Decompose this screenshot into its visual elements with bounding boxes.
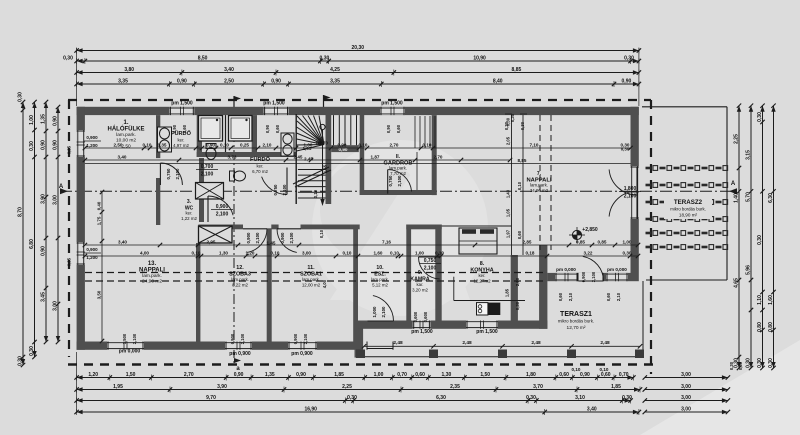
- svg-text:3,80: 3,80: [124, 67, 134, 73]
- svg-text:2,100: 2,100: [397, 175, 402, 187]
- dimension row top 2: [63, 55, 641, 64]
- terasz1 post 2: [429, 350, 438, 359]
- svg-text:1,00: 1,00: [304, 142, 313, 147]
- svg-text:lam.park.: lam.park.: [231, 277, 249, 282]
- wall gardrob south: [360, 190, 437, 195]
- svg-text:FÜRDŐ: FÜRDŐ: [250, 156, 271, 163]
- svg-text:A: A: [731, 181, 736, 187]
- svg-text:1,30: 1,30: [219, 250, 228, 255]
- svg-text:0,10: 0,10: [600, 367, 609, 372]
- svg-text:R2,70: R2,70: [316, 141, 328, 146]
- window left wall upper: [77, 130, 85, 157]
- wall stair/fu2 lintel: [331, 145, 359, 152]
- svg-text:24,90 m2: 24,90 m2: [142, 279, 162, 285]
- shower tray 1: [199, 116, 223, 142]
- wall between showers: [225, 115, 227, 152]
- svg-text:0,10: 0,10: [143, 142, 152, 147]
- section flag a bottom: [234, 358, 241, 363]
- vdim right col 3: [757, 104, 765, 371]
- wall exterior bottom kitchen section: [355, 321, 548, 329]
- kitchen sink unit: [477, 303, 488, 315]
- svg-text:8,85: 8,85: [512, 67, 522, 73]
- svg-text:0,30: 0,30: [63, 55, 73, 61]
- svg-text:2,48: 2,48: [600, 340, 610, 346]
- svg-text:pm 1,500: pm 1,500: [171, 101, 193, 107]
- svg-text:2,95: 2,95: [207, 239, 216, 244]
- room label 1 halofulke: [108, 120, 145, 149]
- extension line top right: [638, 48, 640, 106]
- svg-text:0,10: 0,10: [517, 181, 522, 190]
- svg-text:0,900: 0,900: [230, 333, 235, 344]
- svg-text:0,60: 0,60: [606, 292, 611, 301]
- washbasin double bath1: [158, 127, 172, 152]
- svg-text:0,30: 0,30: [729, 361, 734, 370]
- svg-text:6,80: 6,80: [29, 239, 35, 249]
- svg-text:1,22 m2: 1,22 m2: [181, 216, 197, 221]
- watermark bottom right: [640, 340, 800, 435]
- svg-text:1,10: 1,10: [757, 295, 763, 305]
- wall wc east: [199, 158, 204, 222]
- svg-text:7.: 7.: [537, 171, 542, 177]
- svg-text:2,05: 2,05: [506, 136, 511, 145]
- svg-text:12,00 m2: 12,00 m2: [302, 282, 321, 287]
- svg-text:3,00: 3,00: [53, 195, 59, 205]
- door opening bottom entry: [367, 342, 393, 350]
- svg-text:0,900: 0,900: [280, 232, 285, 244]
- wall pier between doors: [271, 225, 278, 230]
- svg-text:1,85: 1,85: [611, 384, 621, 390]
- svg-text:2,48: 2,48: [393, 340, 403, 346]
- dim row bottom 4 right seg: [645, 411, 728, 413]
- wall under showers: [197, 152, 296, 157]
- wardrobe with X room13: [199, 226, 233, 243]
- svg-text:1,35: 1,35: [158, 142, 167, 147]
- interior dim 8,85 line: [85, 163, 631, 165]
- svg-text:7,10: 7,10: [530, 142, 539, 147]
- svg-text:0,90: 0,90: [234, 372, 244, 378]
- terasz2 decking hatch: [646, 166, 728, 250]
- site boundary dashed right: [650, 100, 652, 374]
- svg-text:3,10: 3,10: [575, 395, 585, 401]
- svg-text:0,90: 0,90: [41, 140, 47, 150]
- svg-text:0,90: 0,90: [53, 140, 59, 150]
- section line B vertical: [233, 96, 235, 366]
- svg-text:3,00: 3,00: [681, 395, 691, 401]
- svg-text:0,30: 0,30: [757, 112, 763, 122]
- svg-text:1,80: 1,80: [526, 372, 536, 378]
- door szoba3 leaf: [243, 229, 267, 253]
- window bottom kitchen: [466, 321, 498, 329]
- svg-text:mikro bordás burk.: mikro bordás burk.: [670, 207, 706, 212]
- svg-text:10,90: 10,90: [473, 55, 486, 61]
- vdim right col 1: [734, 104, 742, 371]
- svg-text:2,70: 2,70: [184, 372, 194, 378]
- wall kamra north: [406, 225, 441, 230]
- svg-text:3,00: 3,00: [302, 250, 311, 255]
- svg-text:0,600: 0,600: [413, 311, 418, 322]
- gardrob shelving: [415, 116, 435, 190]
- dim row bottom 3 right seg: [645, 400, 728, 402]
- svg-text:1,55: 1,55: [323, 164, 328, 173]
- svg-text:2,45: 2,45: [294, 154, 303, 159]
- svg-text:0,10: 0,10: [423, 142, 432, 147]
- svg-text:2,48: 2,48: [531, 340, 541, 346]
- kitchen stove: [488, 303, 500, 315]
- svg-text:1,97: 1,97: [506, 229, 511, 238]
- dashed beam line nappali 1: [539, 115, 541, 250]
- svg-text:4,65: 4,65: [734, 278, 740, 288]
- window W2 top wall: [264, 107, 289, 115]
- svg-text:8,50: 8,50: [198, 55, 208, 61]
- svg-text:2,100: 2,100: [201, 172, 214, 178]
- section flag B top: [234, 96, 241, 101]
- section line A horizontal: [60, 190, 737, 192]
- svg-text:pm 0,900: pm 0,900: [229, 351, 251, 357]
- room label furdo 1: [171, 130, 192, 148]
- svg-text:0,60: 0,60: [396, 124, 401, 133]
- terasz1 edge line: [364, 356, 643, 358]
- svg-text:0,30: 0,30: [510, 113, 515, 122]
- svg-text:0,70: 0,70: [619, 372, 629, 378]
- svg-text:2,100: 2,100: [175, 168, 180, 180]
- terasz2 label halo: [664, 195, 712, 219]
- svg-text:1,35: 1,35: [41, 114, 47, 124]
- svg-text:TERASZ1: TERASZ1: [560, 311, 592, 318]
- interior vdim x102: [101, 192, 103, 341]
- door french right 2: [609, 191, 637, 219]
- interior dim row 2: [83, 154, 513, 162]
- svg-text:0,30: 0,30: [520, 121, 525, 130]
- svg-text:3,70: 3,70: [533, 384, 543, 390]
- dimension row top 1 (20,30): [74, 45, 641, 54]
- wall fu1 west lower: [156, 178, 160, 191]
- svg-text:0,85: 0,85: [598, 239, 607, 244]
- wall kitchen east: [539, 245, 547, 329]
- svg-text:0,60: 0,60: [559, 372, 569, 378]
- svg-text:0,90: 0,90: [41, 246, 47, 256]
- interior dim row 1: [83, 142, 633, 150]
- wall gardrob east: [432, 115, 437, 195]
- svg-text:2,100: 2,100: [132, 333, 137, 344]
- kitchen counter edge: [453, 277, 455, 301]
- dimension row bottom 1: [74, 372, 635, 381]
- svg-text:2,25: 2,25: [342, 384, 352, 390]
- svg-text:2,70: 2,70: [390, 142, 399, 147]
- svg-text:0,60: 0,60: [558, 292, 563, 301]
- svg-text:2,100: 2,100: [240, 333, 245, 344]
- svg-text:lam.park.: lam.park.: [142, 273, 162, 279]
- wall exterior bottom left section: [77, 342, 355, 350]
- room label 11 szoba1: [300, 265, 322, 287]
- svg-text:2,100: 2,100: [255, 232, 260, 244]
- svg-text:2,35: 2,35: [450, 384, 460, 390]
- svg-text:1,43: 1,43: [506, 189, 511, 198]
- section flag stair top: [324, 95, 331, 100]
- svg-text:4,25: 4,25: [330, 67, 340, 73]
- svg-text:1,200: 1,200: [86, 143, 98, 148]
- svg-text:HÁLÓFÜLKE: HÁLÓFÜLKE: [108, 125, 145, 133]
- thin line gallery edge 1: [511, 115, 513, 255]
- svg-text:3,00: 3,00: [681, 372, 691, 378]
- svg-text:6,30: 6,30: [768, 193, 774, 203]
- wall rooms north right: [301, 225, 360, 230]
- svg-text:0,80: 0,80: [768, 322, 774, 332]
- svg-text:3,90: 3,90: [41, 194, 47, 204]
- svg-text:8,70: 8,70: [18, 207, 24, 217]
- svg-text:3,50: 3,50: [97, 290, 102, 299]
- svg-text:0,90: 0,90: [296, 372, 306, 378]
- svg-text:1,00: 1,00: [29, 115, 35, 125]
- door bath1 leaf: [160, 163, 182, 185]
- svg-text:2,10: 2,10: [263, 142, 272, 147]
- svg-text:0,90: 0,90: [580, 372, 590, 378]
- wall gardrob west: [360, 113, 365, 195]
- svg-text:1.: 1.: [123, 120, 128, 126]
- watermark center: [312, 140, 488, 316]
- window left wall lower: [77, 242, 85, 265]
- svg-text:2,70: 2,70: [434, 154, 443, 159]
- svg-text:pm 1,500: pm 1,500: [381, 101, 403, 107]
- stair main winder: [293, 115, 357, 206]
- extension line bottom left: [76, 352, 78, 413]
- wall terrace-facing south: [547, 273, 630, 281]
- svg-text:10,00 m2: 10,00 m2: [116, 138, 136, 144]
- level marker +2,850: [569, 227, 598, 243]
- svg-text:0,30: 0,30: [738, 361, 743, 370]
- svg-text:2,100: 2,100: [381, 306, 386, 318]
- svg-text:pm 0,900: pm 0,900: [291, 351, 313, 357]
- svg-text:5,12 m2: 5,12 m2: [372, 282, 388, 287]
- wall szoba3/szoba1: [267, 228, 272, 341]
- svg-text:0,90: 0,90: [206, 142, 215, 147]
- svg-text:0,30: 0,30: [320, 55, 330, 61]
- door terrace leaf: [579, 256, 604, 281]
- svg-text:0,30: 0,30: [18, 92, 24, 102]
- svg-text:0,35: 0,35: [67, 257, 72, 266]
- svg-text:0,900: 0,900: [86, 247, 98, 252]
- svg-text:8.: 8.: [480, 261, 485, 267]
- dimension row top 3: [74, 67, 641, 76]
- svg-text:7,70 m2: 7,70 m2: [390, 171, 406, 176]
- room label 8 konyha: [470, 261, 493, 283]
- svg-text:0,900: 0,900: [293, 333, 298, 344]
- svg-text:2,100: 2,100: [289, 232, 294, 244]
- wall szoba1/esz: [353, 225, 358, 342]
- svg-text:3,22: 3,22: [584, 250, 593, 255]
- svg-text:+2,850: +2,850: [582, 227, 598, 233]
- svg-text:1,60: 1,60: [374, 250, 383, 255]
- svg-text:0,90: 0,90: [622, 78, 632, 84]
- wall exterior left: [77, 107, 85, 350]
- svg-text:0,10: 0,10: [319, 229, 324, 238]
- dimension row bottom 4: [74, 406, 641, 415]
- svg-text:pm 0,000: pm 0,000: [556, 267, 576, 272]
- svg-text:2,50: 2,50: [224, 78, 234, 84]
- door gardrob leaf: [388, 170, 412, 194]
- window W1 top wall: [169, 107, 194, 115]
- room label 9 kamra: [410, 270, 430, 292]
- svg-text:1,20: 1,20: [88, 372, 98, 378]
- svg-text:0,750: 0,750: [166, 168, 171, 180]
- svg-text:0,30: 0,30: [622, 395, 632, 401]
- svg-text:ker.: ker.: [256, 164, 263, 169]
- dim row bottom 2 right seg: [645, 389, 728, 391]
- svg-text:0,10: 0,10: [220, 142, 229, 147]
- svg-text:5,96: 5,96: [746, 265, 752, 275]
- svg-text:3,40: 3,40: [224, 67, 234, 73]
- kitchen north boundary thin line: [442, 225, 512, 227]
- svg-text:pm 0,000: pm 0,000: [119, 349, 141, 355]
- svg-text:0,30: 0,30: [757, 235, 763, 245]
- svg-text:ker.: ker.: [177, 138, 184, 143]
- cabinet with X corridor: [196, 183, 224, 200]
- svg-text:0,60: 0,60: [275, 124, 280, 133]
- washbasin double bath2: [281, 133, 294, 156]
- svg-text:18,90 m²: 18,90 m²: [679, 213, 698, 218]
- svg-text:3,20 m2: 3,20 m2: [412, 287, 428, 292]
- svg-text:II.: II.: [396, 154, 401, 160]
- room label 13 nappali: [139, 261, 165, 285]
- svg-text:1,40: 1,40: [734, 193, 740, 203]
- svg-text:0,90: 0,90: [386, 124, 391, 133]
- terasz1 post 1: [356, 350, 365, 359]
- room label terasz2: [670, 199, 706, 218]
- svg-text:0,30: 0,30: [746, 358, 752, 368]
- svg-text:0,60: 0,60: [517, 230, 522, 239]
- toilet bath2: [230, 171, 246, 181]
- svg-text:8,85: 8,85: [518, 158, 527, 163]
- svg-text:1,05: 1,05: [506, 208, 511, 217]
- svg-text:pm 0,000: pm 0,000: [607, 267, 627, 272]
- door szoba1 leaf: [277, 229, 301, 253]
- svg-text:0,70: 0,70: [397, 372, 407, 378]
- svg-text:0,90: 0,90: [177, 78, 187, 84]
- svg-text:1,95: 1,95: [113, 384, 123, 390]
- svg-text:1,00: 1,00: [374, 372, 384, 378]
- svg-text:1,85: 1,85: [505, 288, 510, 297]
- door kamra leaf: [419, 257, 441, 279]
- svg-text:3,90: 3,90: [217, 384, 227, 390]
- svg-text:2,48: 2,48: [462, 340, 472, 346]
- svg-text:0,30: 0,30: [768, 358, 774, 368]
- svg-text:34,90 m2: 34,90 m2: [530, 188, 549, 193]
- thin line gallery edge 2: [522, 115, 524, 255]
- dimension row top 4: [74, 78, 641, 87]
- wall shower2 east: [252, 115, 257, 152]
- dimension row bottom 2: [74, 384, 642, 393]
- svg-text:pm 1,500: pm 1,500: [411, 329, 433, 335]
- svg-text:2,100: 2,100: [303, 333, 308, 344]
- svg-text:7,16: 7,16: [382, 239, 391, 244]
- room label 12 szoba3: [229, 265, 251, 287]
- room label furdo 2: [250, 156, 271, 174]
- svg-text:0,90: 0,90: [265, 124, 270, 133]
- svg-text:pm 1,500: pm 1,500: [263, 101, 285, 107]
- window terrace wall 1: [555, 273, 578, 281]
- svg-text:3,73: 3,73: [228, 154, 237, 159]
- svg-text:3,40: 3,40: [587, 406, 597, 412]
- svg-text:0,60: 0,60: [415, 372, 425, 378]
- room label terasz1: [558, 311, 594, 331]
- svg-text:3,45: 3,45: [41, 292, 47, 302]
- svg-text:2,100: 2,100: [624, 194, 637, 200]
- svg-text:0,10: 0,10: [343, 250, 352, 255]
- svg-text:0,900: 0,900: [246, 232, 251, 244]
- svg-text:1,50: 1,50: [480, 372, 490, 378]
- svg-text:3,35: 3,35: [330, 78, 340, 84]
- wall exterior top: [77, 107, 639, 115]
- svg-text:1,75: 1,75: [97, 216, 102, 225]
- svg-text:4,00: 4,00: [322, 279, 327, 288]
- svg-text:0,30: 0,30: [18, 356, 24, 366]
- svg-text:lam.park.: lam.park.: [371, 277, 389, 282]
- vdim left col 3: [41, 100, 49, 344]
- site boundary dashed left: [68, 100, 70, 357]
- site boundary dashed bottom: [68, 363, 654, 366]
- window bottom kamra: [413, 321, 431, 329]
- svg-text:FÜRDŐ: FÜRDŐ: [171, 130, 192, 137]
- wall stair west thin: [295, 114, 297, 204]
- svg-text:3.: 3.: [187, 199, 192, 205]
- vdim right col 2: [746, 104, 754, 371]
- svg-text:0,30: 0,30: [623, 250, 632, 255]
- toilet bath1: [206, 144, 216, 160]
- door opening terrace wall: [578, 273, 603, 281]
- wall wc west: [156, 191, 160, 225]
- door entry leaf: [368, 296, 394, 321]
- svg-text:0,600: 0,600: [423, 311, 428, 322]
- vdim left col 1 (8,70): [18, 92, 26, 367]
- svg-text:12,27m2: 12,27m2: [473, 278, 491, 283]
- section marker A right: [729, 188, 737, 194]
- svg-text:3,40: 3,40: [118, 239, 127, 244]
- svg-text:0,30: 0,30: [624, 55, 634, 61]
- svg-text:4,00: 4,00: [140, 250, 149, 255]
- extension line top left: [76, 48, 78, 106]
- svg-text:0,30: 0,30: [757, 358, 763, 368]
- svg-text:6,70 m2: 6,70 m2: [252, 169, 268, 174]
- svg-text:8,22 m2: 8,22 m2: [232, 282, 248, 287]
- svg-text:2,85: 2,85: [523, 239, 532, 244]
- svg-text:3,00: 3,00: [681, 384, 691, 390]
- svg-text:1,50: 1,50: [126, 372, 136, 378]
- wall fu1 west: [156, 115, 160, 158]
- svg-text:2,50: 2,50: [121, 143, 131, 149]
- svg-text:1,35: 1,35: [265, 372, 275, 378]
- svg-text:TERASZ2: TERASZ2: [674, 199, 703, 206]
- svg-text:6,30: 6,30: [436, 395, 446, 401]
- svg-text:pm 1,500: pm 1,500: [476, 329, 498, 335]
- vdim left col 4: [53, 105, 61, 344]
- svg-text:11.: 11.: [307, 265, 315, 271]
- terasz1 post 3: [498, 350, 507, 359]
- svg-text:2,25: 2,25: [734, 134, 740, 144]
- svg-text:4,97 m2: 4,97 m2: [173, 143, 189, 148]
- wall step at entry: [355, 321, 364, 358]
- window bottom szoba1: [288, 342, 317, 350]
- wall stair east: [326, 113, 332, 204]
- svg-text:kar.: kar.: [416, 282, 423, 287]
- svg-text:5,70: 5,70: [746, 192, 752, 202]
- svg-text:12.: 12.: [236, 265, 244, 271]
- svg-text:20,30: 20,30: [352, 45, 365, 51]
- interior dim row 3: [83, 239, 641, 247]
- room label 10 esz: [371, 265, 389, 287]
- svg-text:0,10: 0,10: [390, 250, 399, 255]
- svg-text:0,90: 0,90: [53, 116, 59, 126]
- dining island: [459, 228, 497, 254]
- dashed beam line nappali 2: [550, 115, 552, 250]
